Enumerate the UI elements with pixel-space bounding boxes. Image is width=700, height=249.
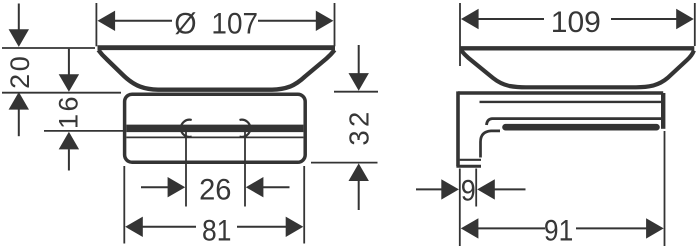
svg-text:Ø: Ø: [174, 8, 196, 41]
dim 81 line: [142, 226, 196, 228]
bracket top plate: [458, 91, 663, 95]
arrow d107 right: [316, 11, 334, 31]
dim 26 shafts: [141, 186, 169, 188]
dim 109 line: [478, 18, 545, 20]
dish bowl front: [98, 50, 334, 90]
dish bowl side: [461, 50, 694, 87]
svg-text:20: 20: [5, 54, 35, 89]
dim 32L ext top: [334, 91, 378, 93]
dish rim front: [98, 45, 336, 50]
dim 16 ext bottom: [44, 130, 125, 132]
label diameter symbol: [174, 8, 196, 41]
label 81: [202, 213, 231, 247]
arrow 16 bottom: [59, 132, 79, 150]
dim 32L shafts: [358, 45, 360, 74]
dim 20 shafts: [18, 4, 20, 30]
arrow 32L bottom: [349, 163, 369, 181]
wall plate outer: [456, 91, 460, 166]
dim 9 shafts: [416, 188, 443, 190]
svg-text:16: 16: [54, 94, 84, 129]
bracket right end: [661, 93, 665, 129]
svg-text:91: 91: [544, 213, 573, 247]
dim 20 ext top: [2, 47, 95, 49]
dim 109 ext right: [694, 3, 696, 46]
dim Ø107 ext right: [334, 3, 336, 46]
dim 9 ext right: [475, 169, 477, 207]
label 107: [211, 7, 258, 40]
label 20: [5, 54, 35, 89]
arrow 81 left: [125, 217, 143, 237]
svg-text:9: 9: [461, 174, 476, 208]
arrow 26 right: [246, 177, 264, 197]
arrow 91 right: [646, 218, 664, 238]
dim Ø107 ext left: [95, 3, 97, 46]
holder plate front: [125, 94, 306, 162]
holder seam line: [126, 136, 303, 138]
arrow 20 top: [9, 29, 29, 47]
dim 91 line: [478, 227, 546, 229]
elbow outer: [481, 131, 501, 158]
label 26: [199, 173, 231, 206]
dim 20 ext bottom: [2, 92, 121, 94]
dim 81 ext right: [303, 166, 305, 244]
rubber pad: [506, 124, 657, 131]
dim 26 ext left: [185, 132, 187, 207]
arrow 16 top: [59, 74, 79, 92]
label 109: [551, 6, 601, 39]
wall plate bottom: [456, 165, 481, 168]
arrow 9 left: [441, 179, 459, 199]
arrow 81 right: [286, 217, 304, 237]
dim 9 ext left: [459, 169, 461, 247]
arrow 9 right: [477, 179, 495, 199]
arrow 109 right: [676, 9, 694, 29]
label 16: [54, 94, 84, 129]
dim 91 ext right: [664, 131, 666, 246]
dim 81 ext left: [123, 166, 125, 244]
arrow 32L top: [349, 73, 369, 91]
bracket plate underside: [480, 101, 662, 103]
arrow 109 left: [461, 9, 479, 29]
dim 109 ext left: [459, 3, 461, 66]
svg-text:26: 26: [199, 173, 231, 206]
dim 32L ext bottom: [311, 162, 378, 164]
right hole arc: [240, 120, 251, 137]
dim Ø107 line: [115, 20, 173, 22]
arrow 26 left: [168, 177, 186, 197]
bracket arm seam: [487, 119, 662, 125]
svg-text:32: 32: [343, 108, 374, 145]
svg-text:107: 107: [211, 7, 258, 40]
arrow d107 left: [98, 11, 116, 31]
holder bar thick: [126, 125, 303, 133]
dish rim side: [461, 46, 695, 50]
label 9: [461, 174, 476, 208]
svg-text:81: 81: [202, 213, 231, 247]
dim 26 ext right: [244, 132, 246, 207]
wall foot seam: [460, 159, 481, 161]
svg-text:109: 109: [551, 6, 601, 39]
label 32: [343, 108, 374, 145]
label 91: [544, 213, 573, 247]
left hole arc: [181, 120, 192, 137]
dim 16 shafts: [68, 49, 70, 75]
arrow 91 left: [461, 218, 479, 238]
arrow 20 bottom: [9, 92, 29, 110]
